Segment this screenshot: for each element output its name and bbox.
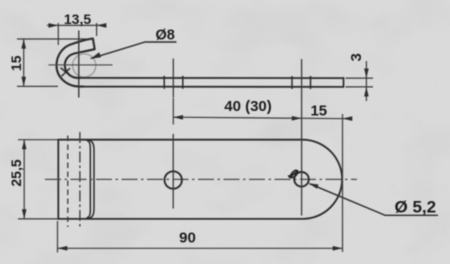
dim 15 top arrow xyxy=(21,39,26,49)
bend tangent line outer xyxy=(88,140,94,219)
large hole (right, dia 5.2) xyxy=(294,172,309,187)
dim 3 extension lines (right end) xyxy=(346,77,374,79)
right hole centerline, continuous through dim row into top view (side view) xyxy=(301,59,303,134)
dim 25,5 top arrow xyxy=(22,140,27,150)
dim 13,5 right arrow (outside, pointing left) xyxy=(97,23,107,28)
curl vertical centerline xyxy=(78,31,80,98)
left hole edge ticks (side view) xyxy=(163,76,165,89)
dim 90 left arrow xyxy=(58,246,68,251)
svg-text:40 (30): 40 (30) xyxy=(224,98,272,115)
dim 3 bottom arrow (outside, pointing up) xyxy=(364,87,369,97)
bend centerline (dash-dot) xyxy=(79,132,81,229)
svg-text:Ø 5,2: Ø 5,2 xyxy=(395,198,437,217)
strap right end cap xyxy=(343,77,345,88)
dim 13,5 extension line right xyxy=(96,23,98,36)
dim 90 left extension xyxy=(57,221,59,253)
dim 15 right arrow (outside, pointing left at part end line) xyxy=(343,116,353,121)
dim 25,5 extension bottom xyxy=(18,218,58,220)
left hole centerline (side view) xyxy=(172,59,174,98)
faint inner circle (rod, dia 8) xyxy=(73,54,96,77)
dim 15 (left) extension top xyxy=(17,38,93,40)
dim 13,5 extension line left xyxy=(57,23,59,45)
dim 40(30)/15 combined line xyxy=(173,117,351,119)
dim 15 extension bottom xyxy=(17,85,58,87)
dim 15 line xyxy=(23,39,25,86)
dia 5,2 leader arrowhead xyxy=(309,183,319,189)
main horizontal centerline (dash-dot) xyxy=(45,178,357,180)
dim 13,5 line xyxy=(47,24,106,26)
dia 5,2 leader line with underline xyxy=(310,184,439,216)
svg-text:90: 90 xyxy=(179,230,196,247)
curled hook outline with free end xyxy=(57,39,95,87)
curl horizontal centerline xyxy=(49,64,113,66)
svg-text:15: 15 xyxy=(310,103,327,120)
strap top line (side view) xyxy=(78,77,344,79)
dim 3 line xyxy=(365,61,367,101)
right end extension line (for 15 and 90) xyxy=(342,114,344,252)
dim 3 top arrow (outside, pointing down) xyxy=(364,69,369,79)
small hole (left) xyxy=(165,171,182,188)
large hole vertical centerline xyxy=(301,134,303,216)
dim 25,5 line xyxy=(23,140,25,219)
dia 8 leader arrowhead xyxy=(90,52,101,59)
dim 40 left arrow (tip at small hole centerline) xyxy=(173,115,183,120)
strap bottom line (side view) xyxy=(80,86,344,88)
dim 25,5 extension top xyxy=(18,139,58,141)
dim 90 line xyxy=(58,247,343,249)
small hole vertical centerline xyxy=(172,134,174,209)
bend tangent line inner xyxy=(86,140,90,218)
svg-text:25,5: 25,5 xyxy=(8,159,24,186)
svg-text:3: 3 xyxy=(348,53,365,61)
dim 15 bottom arrow xyxy=(21,77,26,87)
hidden dashed line (curled-under end, hidden edge) xyxy=(67,136,69,228)
svg-text:15: 15 xyxy=(8,55,24,71)
svg-text:Ø8: Ø8 xyxy=(156,28,175,44)
dia 8 leader line with underline xyxy=(91,42,177,59)
pencil cross mark on curl xyxy=(61,68,71,77)
dim 90 right arrow xyxy=(333,246,343,251)
dim 40 right / dim 15 left arrow (tip at large hole centerline, pointing right) xyxy=(292,116,302,121)
small hole upper extension segment (dim row) xyxy=(172,98,174,125)
part outline: rectangle with rounded right end xyxy=(58,140,342,219)
dim 25,5 bottom arrow xyxy=(22,209,27,219)
right hole edge ticks (side view) xyxy=(291,76,293,89)
pencil squiggle at large hole xyxy=(288,170,298,178)
dim 13,5 left arrow (outside, pointing right) xyxy=(49,23,59,28)
svg-text:13,5: 13,5 xyxy=(64,11,91,27)
